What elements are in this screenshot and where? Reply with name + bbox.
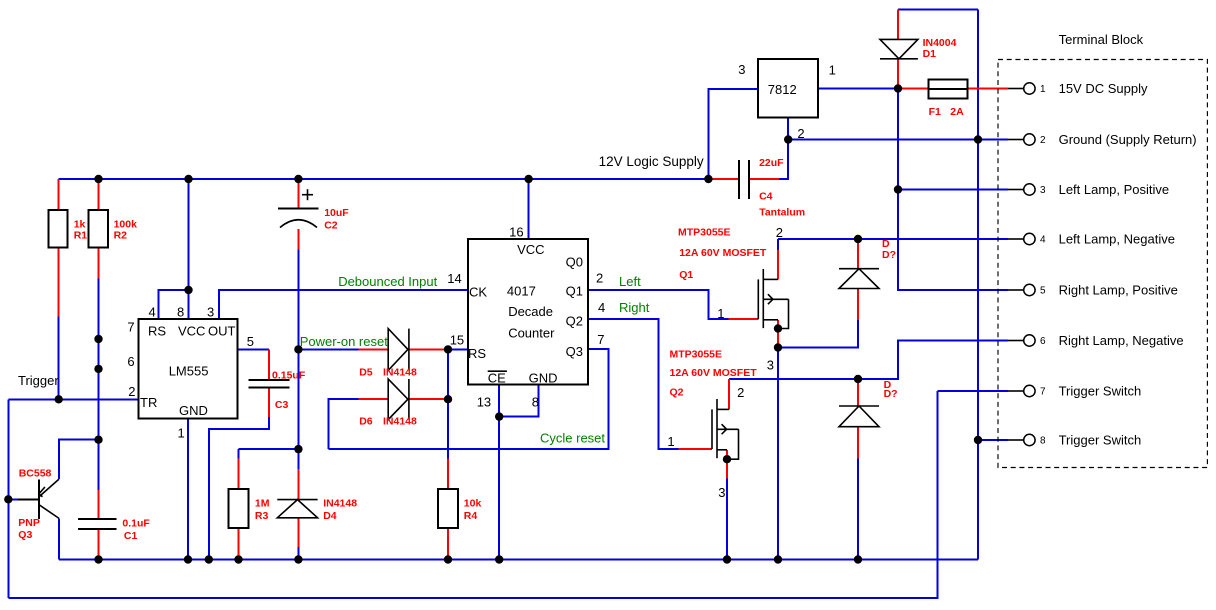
svg-text:2: 2 bbox=[776, 225, 783, 240]
svg-text:D1: D1 bbox=[923, 48, 937, 60]
svg-text:MTP3055E: MTP3055E bbox=[670, 349, 723, 361]
svg-text:Left: Left bbox=[619, 274, 641, 289]
svg-text:6: 6 bbox=[127, 354, 134, 369]
svg-text:12V Logic Supply: 12V Logic Supply bbox=[599, 154, 704, 169]
svg-text:VCC: VCC bbox=[517, 242, 544, 257]
svg-text:1: 1 bbox=[178, 426, 185, 441]
svg-text:Q3: Q3 bbox=[18, 529, 32, 541]
svg-text:12A 60V MOSFET: 12A 60V MOSFET bbox=[670, 367, 758, 379]
svg-text:10k: 10k bbox=[464, 498, 482, 510]
svg-text:0.1uF: 0.1uF bbox=[122, 518, 150, 530]
svg-text:13: 13 bbox=[477, 395, 491, 410]
svg-text:Counter: Counter bbox=[508, 326, 555, 341]
svg-text:4: 4 bbox=[1040, 235, 1046, 246]
svg-text:8: 8 bbox=[177, 305, 184, 320]
svg-text:D?: D? bbox=[884, 388, 898, 400]
svg-text:2: 2 bbox=[737, 385, 744, 400]
svg-text:Trigger: Trigger bbox=[18, 373, 59, 388]
svg-text:15: 15 bbox=[450, 333, 464, 348]
svg-text:CE: CE bbox=[488, 371, 506, 386]
svg-text:12A 60V MOSFET: 12A 60V MOSFET bbox=[679, 247, 767, 259]
svg-text:6: 6 bbox=[1040, 336, 1046, 347]
svg-text:4: 4 bbox=[598, 300, 605, 315]
svg-text:C4: C4 bbox=[759, 191, 773, 203]
svg-text:4: 4 bbox=[149, 305, 156, 320]
svg-text:IN4148: IN4148 bbox=[383, 366, 417, 378]
svg-text:BC558: BC558 bbox=[19, 468, 52, 480]
svg-text:Q3: Q3 bbox=[566, 344, 583, 359]
svg-text:F1: F1 bbox=[929, 106, 941, 118]
svg-text:D5: D5 bbox=[359, 366, 373, 378]
svg-text:Left Lamp, Negative: Left Lamp, Negative bbox=[1059, 232, 1175, 247]
svg-text:3: 3 bbox=[738, 62, 745, 77]
svg-text:IN4148: IN4148 bbox=[323, 498, 357, 510]
svg-text:1: 1 bbox=[717, 306, 724, 321]
svg-text:Terminal Block: Terminal Block bbox=[1059, 32, 1144, 47]
svg-text:R1: R1 bbox=[74, 230, 88, 242]
svg-text:Tantalum: Tantalum bbox=[759, 206, 805, 218]
svg-text:Right Lamp, Negative: Right Lamp, Negative bbox=[1059, 333, 1184, 348]
svg-text:RS: RS bbox=[468, 346, 486, 361]
svg-text:2: 2 bbox=[128, 384, 135, 399]
svg-text:Ground (Supply Return): Ground (Supply Return) bbox=[1059, 132, 1197, 147]
svg-text:5: 5 bbox=[1040, 286, 1046, 297]
svg-text:2: 2 bbox=[1040, 135, 1046, 146]
svg-text:3: 3 bbox=[767, 358, 774, 373]
svg-text:R2: R2 bbox=[114, 230, 128, 242]
svg-text:C1: C1 bbox=[124, 530, 138, 542]
svg-text:Right: Right bbox=[619, 300, 650, 315]
svg-text:1: 1 bbox=[1040, 84, 1046, 95]
svg-text:8: 8 bbox=[532, 395, 539, 410]
svg-text:1: 1 bbox=[667, 434, 674, 449]
svg-text:GND: GND bbox=[529, 371, 558, 386]
svg-text:Q1: Q1 bbox=[679, 269, 693, 281]
svg-text:Debounced Input: Debounced Input bbox=[338, 274, 437, 289]
svg-text:14: 14 bbox=[447, 271, 461, 286]
svg-text:R3: R3 bbox=[255, 510, 269, 522]
svg-text:100k: 100k bbox=[114, 218, 138, 230]
svg-text:Q1: Q1 bbox=[566, 284, 583, 299]
svg-text:1M: 1M bbox=[255, 498, 270, 510]
svg-text:10uF: 10uF bbox=[324, 207, 349, 219]
svg-text:VCC: VCC bbox=[178, 324, 205, 339]
svg-text:Q0: Q0 bbox=[566, 255, 583, 270]
svg-text:Q2: Q2 bbox=[566, 314, 583, 329]
svg-text:Trigger Switch: Trigger Switch bbox=[1059, 384, 1142, 399]
svg-text:GND: GND bbox=[179, 403, 208, 418]
svg-text:D?: D? bbox=[882, 249, 896, 261]
svg-text:D6: D6 bbox=[359, 416, 373, 428]
svg-text:22uF: 22uF bbox=[759, 157, 784, 169]
svg-text:PNP: PNP bbox=[18, 517, 40, 529]
svg-text:TR: TR bbox=[140, 395, 157, 410]
svg-text:2: 2 bbox=[596, 271, 603, 286]
svg-text:4017: 4017 bbox=[507, 284, 536, 299]
svg-text:CK: CK bbox=[469, 285, 487, 300]
svg-text:MTP3055E: MTP3055E bbox=[678, 226, 731, 238]
svg-text:R4: R4 bbox=[464, 510, 478, 522]
svg-text:C2: C2 bbox=[324, 220, 338, 232]
svg-text:0.15uF: 0.15uF bbox=[272, 370, 306, 382]
svg-text:IN4004: IN4004 bbox=[923, 37, 957, 49]
svg-text:Q2: Q2 bbox=[670, 386, 684, 398]
svg-text:1: 1 bbox=[829, 63, 836, 78]
svg-text:8: 8 bbox=[1040, 436, 1046, 447]
svg-text:5: 5 bbox=[247, 334, 254, 349]
svg-text:7: 7 bbox=[597, 332, 604, 347]
svg-text:1k: 1k bbox=[74, 218, 86, 230]
svg-text:7: 7 bbox=[127, 319, 134, 334]
svg-text:3: 3 bbox=[1040, 185, 1046, 196]
svg-text:D4: D4 bbox=[323, 510, 337, 522]
svg-text:Power-on reset: Power-on reset bbox=[300, 334, 389, 349]
svg-text:Left Lamp, Positive: Left Lamp, Positive bbox=[1059, 182, 1170, 197]
svg-text:7: 7 bbox=[1040, 387, 1046, 398]
svg-text:C3: C3 bbox=[275, 399, 289, 411]
svg-text:IN4148: IN4148 bbox=[383, 416, 417, 428]
svg-text:15V DC Supply: 15V DC Supply bbox=[1059, 81, 1148, 96]
svg-text:Cycle reset: Cycle reset bbox=[540, 431, 605, 446]
svg-text:2: 2 bbox=[797, 126, 804, 141]
svg-text:RS: RS bbox=[148, 324, 166, 339]
svg-text:Trigger Switch: Trigger Switch bbox=[1059, 433, 1142, 448]
svg-text:2A: 2A bbox=[950, 106, 964, 118]
svg-text:7812: 7812 bbox=[768, 82, 797, 97]
svg-text:16: 16 bbox=[509, 225, 523, 240]
svg-text:Right Lamp, Positive: Right Lamp, Positive bbox=[1059, 283, 1178, 298]
svg-text:OUT: OUT bbox=[208, 324, 236, 339]
svg-text:LM555: LM555 bbox=[169, 364, 209, 379]
svg-text:3: 3 bbox=[207, 305, 214, 320]
svg-text:Decade: Decade bbox=[508, 304, 553, 319]
svg-text:3: 3 bbox=[718, 485, 725, 500]
